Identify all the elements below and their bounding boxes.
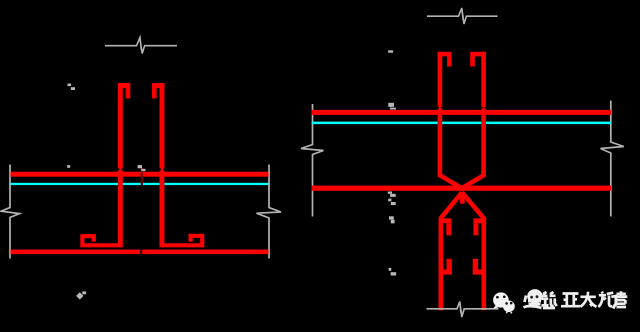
lower stud left flange with taper (right detail): [441, 192, 462, 310]
left edge break line (right detail): [301, 104, 324, 217]
left edge break line (left detail): [1, 165, 20, 259]
upper stud right top bar: [470, 52, 486, 57]
lower insert right foot bar: [473, 270, 484, 275]
lower insert left up lip: [447, 259, 452, 270]
stud right flange (left detail): [160, 83, 165, 247]
lower stud right upper lip: [473, 223, 478, 235]
bottom break symbol (right detail): [427, 302, 499, 318]
speck c (left detail left end of line): [67, 165, 70, 168]
board red line (right detail): [312, 110, 612, 115]
bottom left channel (left detail): [82, 236, 120, 245]
top break symbol (right detail): [427, 8, 498, 24]
endpoint pinch nicks on stud flanges (right detail): [438, 107, 486, 109]
speck e (right detail top): [388, 50, 393, 52]
upper stud left top bar: [438, 52, 452, 57]
bottom runner seam gap: [140, 250, 142, 255]
lower stud left upper lip: [446, 223, 451, 235]
stud left flange (left detail): [118, 83, 123, 247]
middle runner red line (right detail): [312, 186, 612, 191]
cyan board line (right detail): [312, 122, 612, 125]
stud right top bar: [152, 83, 164, 88]
glyph 声: [613, 291, 627, 308]
glyph 筑: [542, 292, 557, 308]
wechat logo small bubble: [503, 301, 515, 315]
bottom runner red line (left detail): [11, 250, 269, 255]
lower insert left foot bar: [441, 270, 452, 275]
upper stud right lip: [470, 56, 475, 66]
wechat bubble over text: [527, 289, 542, 304]
lower stud right top bar: [473, 218, 486, 223]
speck b (left detail centre): [138, 165, 142, 168]
speck j: [389, 268, 392, 271]
right edge break line (left detail): [257, 165, 282, 259]
lower stud right flange with taper (right detail): [462, 192, 484, 310]
splice centre tongue stub: [460, 195, 465, 204]
stud right lip: [152, 88, 157, 98]
lower stud left top bar: [439, 218, 452, 223]
speck g (right detail below middle line): [388, 192, 392, 194]
right edge break line (right detail): [601, 101, 624, 217]
speck f (right detail above first line): [388, 103, 394, 107]
wechat logo big bubble: [493, 292, 509, 309]
glyph 施: [598, 292, 616, 307]
speck a (left detail upper-left): [68, 84, 72, 87]
watermark text 建筑亚太施声 (hand drawn strokes): [524, 291, 628, 308]
upper stud left flange with taper (right detail): [440, 52, 464, 189]
glyph 太: [580, 292, 596, 307]
lower insert right up lip: [473, 259, 478, 270]
top break symbol (left detail): [105, 38, 177, 54]
glyph 亚: [561, 294, 580, 307]
speck h: [388, 199, 391, 202]
speck i: [389, 216, 394, 219]
top runner red line (left detail): [11, 172, 269, 177]
glyph 建: [524, 291, 542, 308]
cyan board line (left detail): [11, 183, 269, 185]
upper stud left lip: [447, 56, 452, 66]
speck d (below left detail): [76, 292, 83, 299]
stud left lip: [126, 88, 131, 98]
bottom right channel (left detail): [162, 236, 202, 246]
stud left top bar: [118, 83, 130, 88]
upper stud right flange with taper (right detail): [460, 52, 484, 189]
dark joint seam at centre (left detail): [141, 168, 143, 185]
endpoint pinch nicks on stud flanges (left detail): [118, 168, 165, 170]
